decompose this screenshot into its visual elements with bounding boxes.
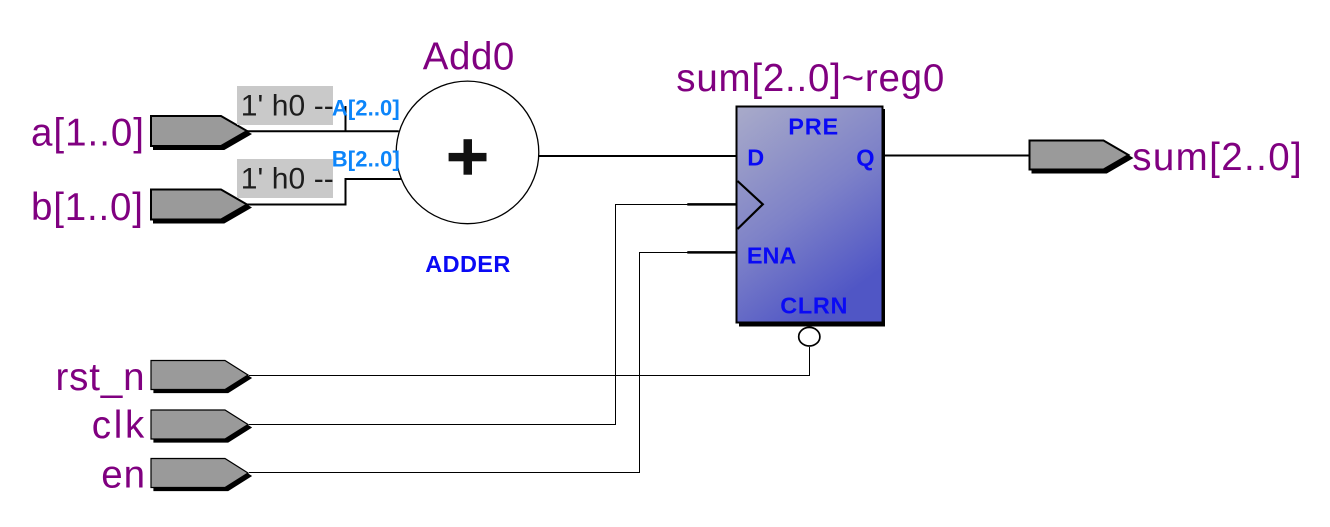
- svg-text:1' h0 --: 1' h0 --: [241, 90, 334, 123]
- svg-text:ENA: ENA: [747, 242, 796, 268]
- svg-text:b[1..0]: b[1..0]: [31, 186, 143, 229]
- svg-text:1' h0 --: 1' h0 --: [241, 163, 334, 196]
- svg-text:en: en: [101, 454, 145, 497]
- svg-text:A[2..0]: A[2..0]: [332, 96, 400, 121]
- svg-text:PRE: PRE: [788, 114, 838, 140]
- svg-text:B[2..0]: B[2..0]: [332, 146, 400, 171]
- svg-text:D: D: [747, 145, 764, 171]
- svg-text:sum[2..0]: sum[2..0]: [1132, 136, 1302, 179]
- svg-text:CLRN: CLRN: [780, 293, 847, 319]
- svg-text:Q: Q: [856, 145, 874, 171]
- svg-text:clk: clk: [92, 404, 145, 447]
- svg-text:sum[2..0]~reg0: sum[2..0]~reg0: [676, 57, 944, 100]
- svg-text:ADDER: ADDER: [425, 251, 510, 277]
- svg-text:Add0: Add0: [423, 36, 515, 79]
- svg-text:rst_n: rst_n: [56, 356, 145, 399]
- svg-text:a[1..0]: a[1..0]: [31, 112, 144, 155]
